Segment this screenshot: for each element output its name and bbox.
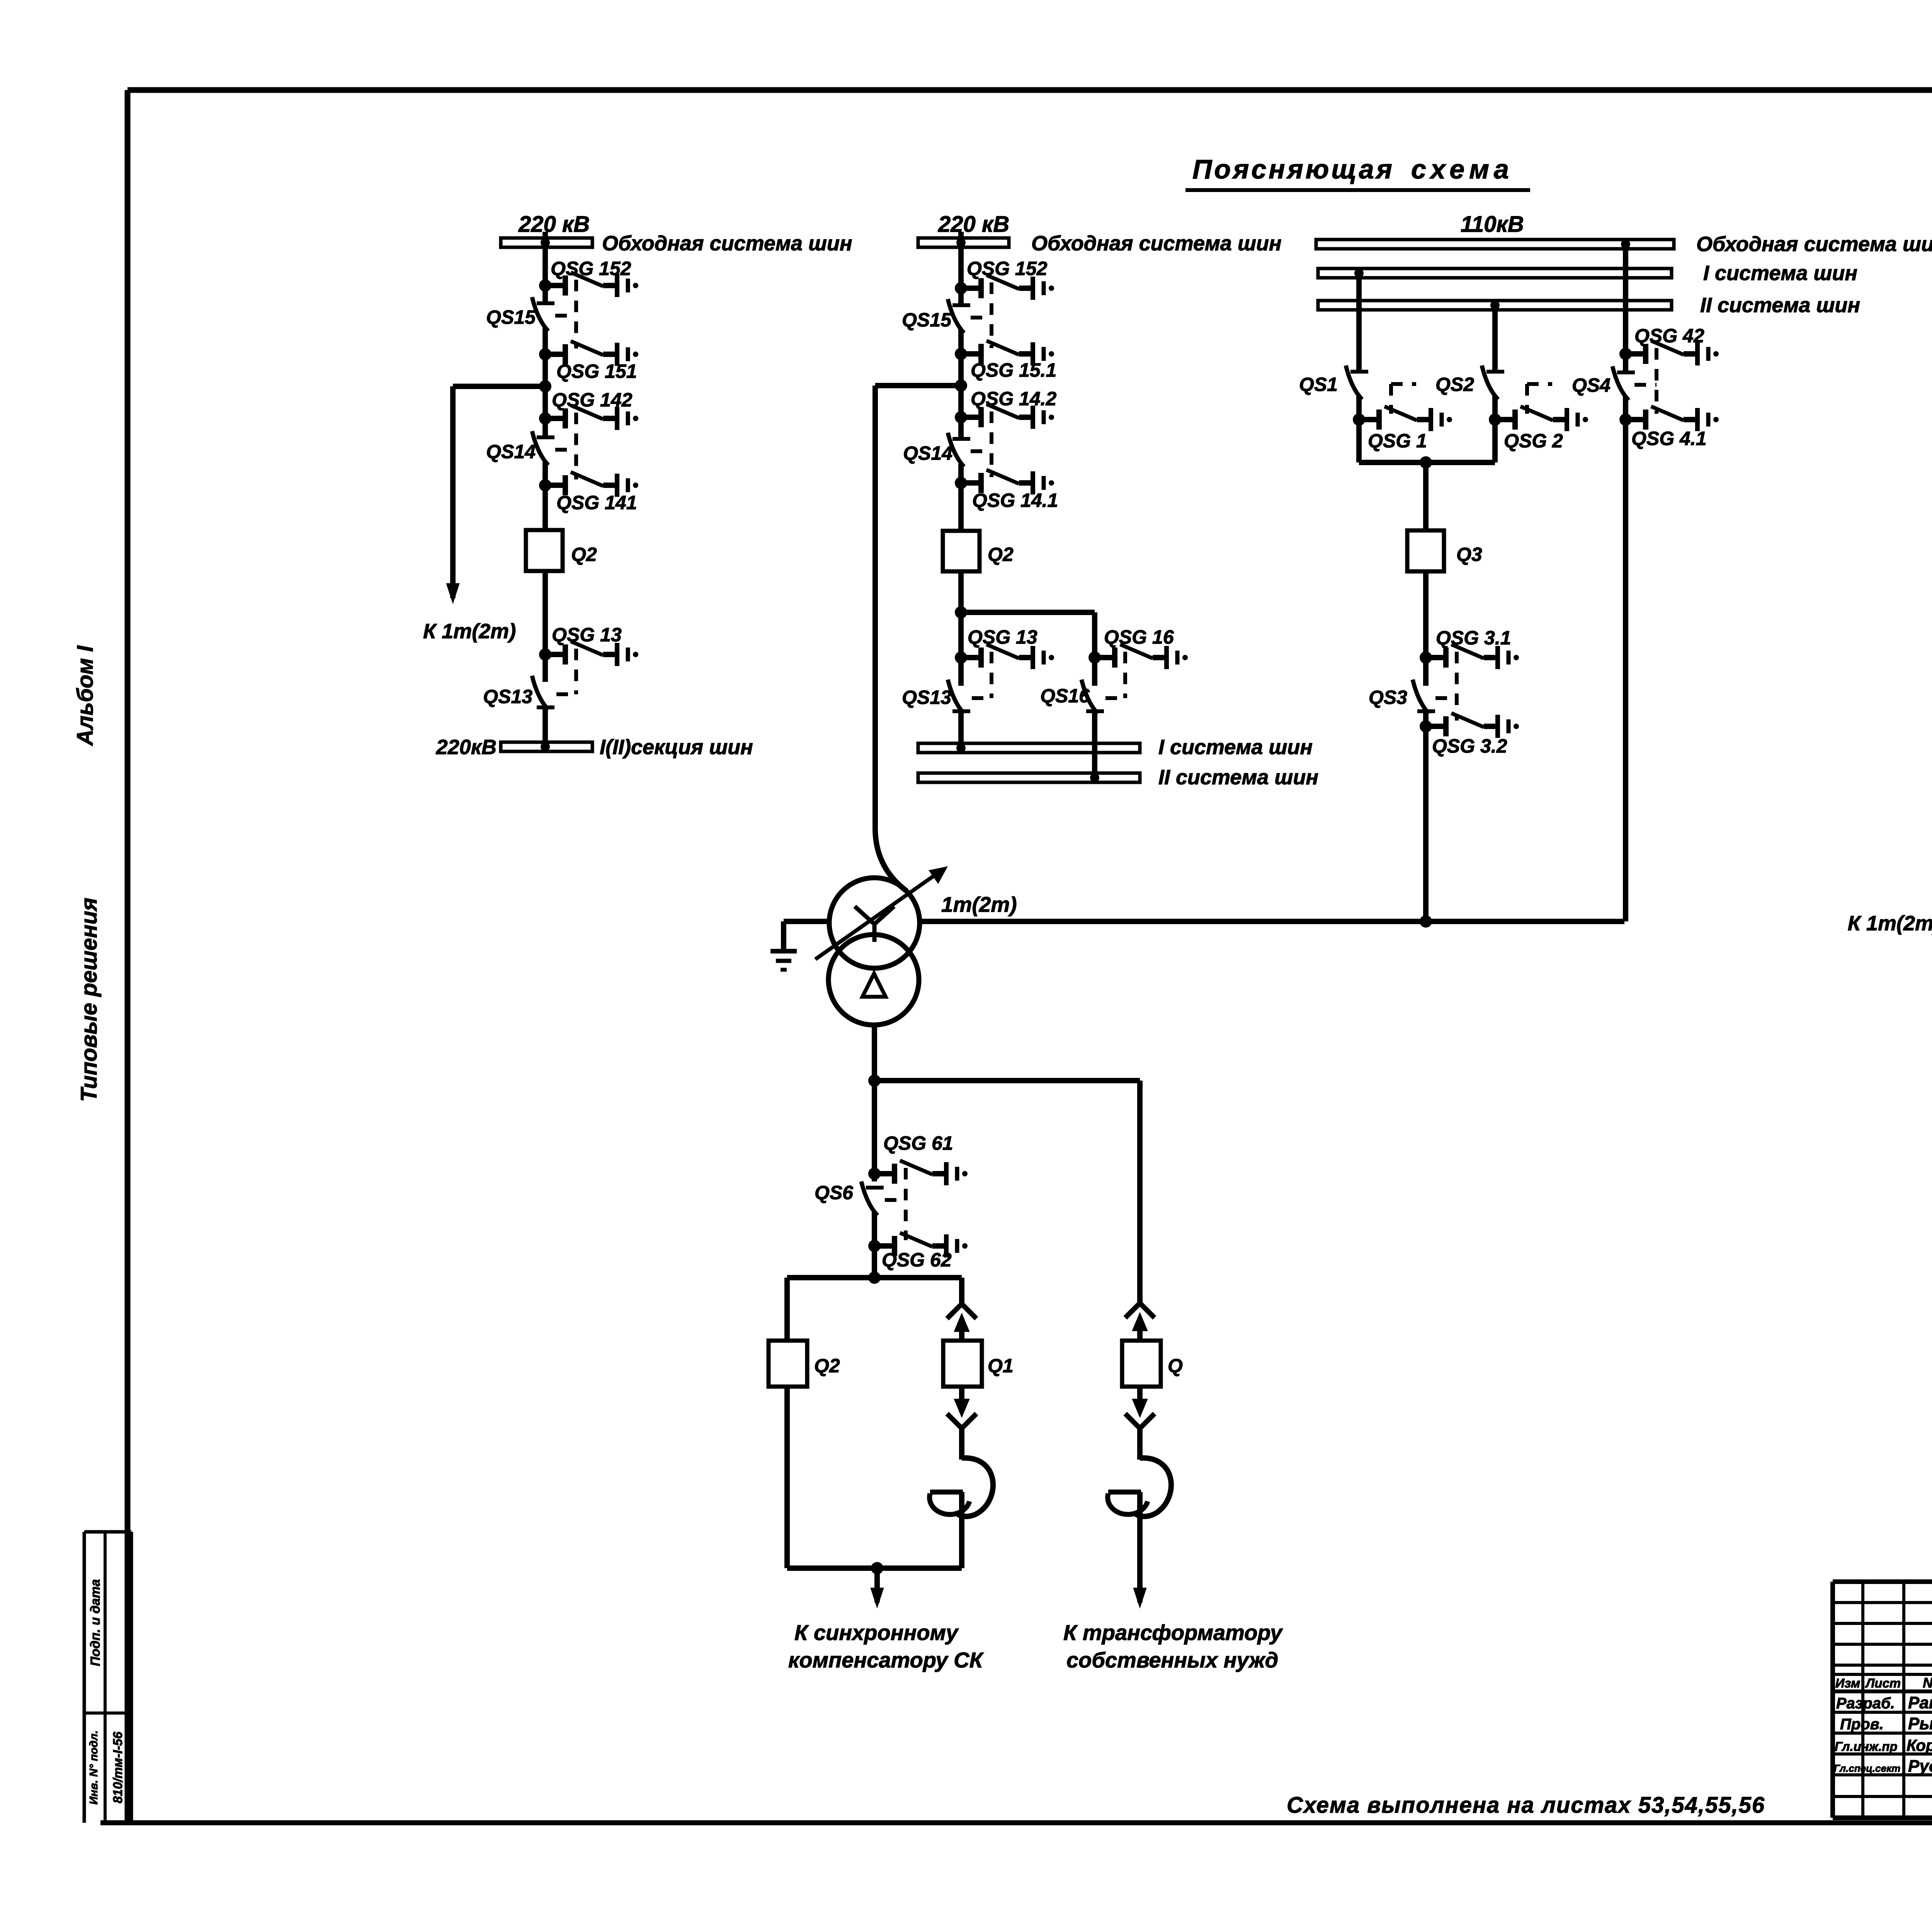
svg-text:Типовые решения: Типовые решения <box>77 897 102 1102</box>
svg-text:QSG 142: QSG 142 <box>552 389 633 411</box>
svg-text:II система шин: II система шин <box>1158 766 1318 789</box>
svg-text:110кВ: 110кВ <box>1461 212 1524 237</box>
svg-text:220кВ: 220кВ <box>436 736 497 759</box>
svg-text:QSG 13: QSG 13 <box>552 624 622 646</box>
svg-text:QSG 152: QSG 152 <box>551 258 631 279</box>
svg-text:QSG 15.1: QSG 15.1 <box>971 359 1056 381</box>
svg-text:QS4: QS4 <box>1572 374 1611 396</box>
svg-text:QS14: QS14 <box>903 442 952 464</box>
svg-text:220 кВ: 220 кВ <box>938 212 1009 237</box>
svg-text:Q3: Q3 <box>1456 544 1482 565</box>
svg-text:Рыбкина: Рыбкина <box>1908 1714 1932 1733</box>
svg-text:К синхронному: К синхронному <box>794 1620 959 1645</box>
svg-text:Q2: Q2 <box>814 1355 840 1377</box>
svg-text:К 1т(2т): К 1т(2т) <box>1848 912 1932 935</box>
svg-text:QSG 1: QSG 1 <box>1368 430 1427 452</box>
svg-text:QSG 4.1: QSG 4.1 <box>1631 428 1707 449</box>
svg-text:QS15: QS15 <box>902 309 952 331</box>
svg-text:QSG 13: QSG 13 <box>968 626 1037 648</box>
svg-text:Изм: Изм <box>1835 1676 1861 1690</box>
svg-text:QSG 16: QSG 16 <box>1104 626 1174 648</box>
svg-text:QSG 14.1: QSG 14.1 <box>972 489 1058 511</box>
svg-text:QS13: QS13 <box>902 687 951 708</box>
svg-text:I система шин: I система шин <box>1703 262 1857 285</box>
svg-text:компенсатору СК: компенсатору СК <box>788 1648 984 1672</box>
svg-text:QS14: QS14 <box>486 441 536 462</box>
svg-text:Гл.инж.пр: Гл.инж.пр <box>1835 1739 1898 1754</box>
svg-text:К трансформатору: К трансформатору <box>1063 1620 1283 1645</box>
svg-text:I(II)секция шин: I(II)секция шин <box>600 736 753 759</box>
svg-text:Обходная система шин: Обходная система шин <box>1696 233 1932 256</box>
svg-text:Подп. и дата: Подп. и дата <box>88 1579 103 1666</box>
svg-text:Инв. N° подл.: Инв. N° подл. <box>88 1730 100 1805</box>
svg-text:Схема выполнена на листах: Схема выполнена на листах 53,54,55,56 <box>1287 1793 1765 1818</box>
svg-text:QSG 14.2: QSG 14.2 <box>971 388 1057 410</box>
svg-text:Обходная система шин: Обходная система шин <box>1031 232 1282 255</box>
svg-text:Пров.: Пров. <box>1840 1716 1884 1733</box>
svg-text:Q2: Q2 <box>571 544 597 565</box>
svg-text:II система шин: II система шин <box>1700 294 1860 317</box>
svg-text:Разраб.: Разраб. <box>1836 1695 1895 1712</box>
svg-text:QSG 152: QSG 152 <box>967 258 1048 279</box>
svg-text:Q2: Q2 <box>988 544 1014 565</box>
svg-text:N° Докум: N° Докум <box>1923 1675 1932 1691</box>
svg-text:Q: Q <box>1168 1355 1183 1377</box>
svg-text:QSG 141: QSG 141 <box>556 492 637 513</box>
svg-text:QS16: QS16 <box>1040 685 1090 707</box>
svg-text:Ратнер: Ратнер <box>1908 1693 1932 1712</box>
svg-text:QSG 2: QSG 2 <box>1504 430 1563 452</box>
svg-text:810/тм-I-56: 810/тм-I-56 <box>111 1732 125 1803</box>
svg-text:Поясняющая: Поясняющая <box>1192 154 1395 184</box>
svg-text:QSG 3.2: QSG 3.2 <box>1432 735 1507 757</box>
svg-text:QSG 61: QSG 61 <box>883 1132 953 1154</box>
svg-text:QS15: QS15 <box>486 306 536 328</box>
svg-text:220 кВ: 220 кВ <box>518 212 590 237</box>
svg-text:QSG 151: QSG 151 <box>556 360 637 382</box>
svg-text:К 1т(2т): К 1т(2т) <box>423 620 516 643</box>
svg-text:I система шин: I система шин <box>1158 736 1313 759</box>
svg-text:Альбом I: Альбом I <box>73 645 98 746</box>
svg-text:собственных нужд: собственных нужд <box>1066 1648 1278 1672</box>
svg-text:QS3: QS3 <box>1369 687 1407 708</box>
svg-text:Гл.спец.сект: Гл.спец.сект <box>1834 1762 1900 1774</box>
svg-text:Лист: Лист <box>1865 1676 1901 1690</box>
svg-text:QS13: QS13 <box>483 686 532 707</box>
svg-text:Q1: Q1 <box>988 1355 1014 1377</box>
svg-text:QS2: QS2 <box>1435 374 1474 395</box>
svg-text:Корабликов: Корабликов <box>1906 1736 1932 1754</box>
svg-text:QSG 3.1: QSG 3.1 <box>1436 627 1511 649</box>
svg-text:QSG 42: QSG 42 <box>1634 325 1704 347</box>
svg-text:1т(2т): 1т(2т) <box>941 892 1017 916</box>
svg-text:Обходная система шин: Обходная система шин <box>602 232 852 255</box>
svg-text:схема: схема <box>1411 154 1514 184</box>
svg-text:QS1: QS1 <box>1299 374 1338 395</box>
svg-text:QS6: QS6 <box>815 1182 854 1203</box>
svg-text:QSG 62: QSG 62 <box>882 1249 952 1271</box>
svg-text:Руденко: Руденко <box>1908 1757 1932 1776</box>
